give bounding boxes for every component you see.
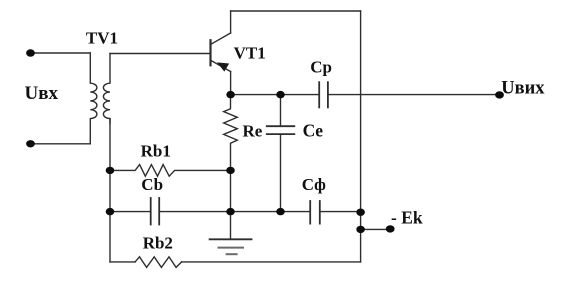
terminal: output Uvyh — [495, 91, 504, 98]
wire: right vertical rail — [360, 11, 362, 262]
wire: input top terminal to TV1 primary — [31, 52, 91, 54]
terminal: input top (Uvx +) — [26, 49, 35, 56]
resistor Rb2 — [135, 257, 182, 268]
resistor Re — [224, 95, 238, 171]
wire: mid rail left (bias node to Cb) — [110, 211, 151, 213]
resistor Rb1 — [110, 165, 231, 177]
svg-text:- Ek: - Ek — [391, 207, 423, 227]
svg-text:Uвих: Uвих — [501, 79, 545, 99]
wire: emitter node to Cp — [231, 94, 320, 96]
wire: TV1 primary bottom to input bottom terminal — [31, 143, 91, 145]
junction: emitter node — [226, 91, 235, 98]
junction: Ek node — [356, 226, 365, 233]
junction: Rb1 right node — [226, 167, 235, 174]
wire: bottom rail left segment — [110, 261, 135, 263]
svg-text:Cp: Cp — [310, 58, 332, 77]
svg-text:Сф: Сф — [302, 175, 326, 194]
wire: VT1 collector to top rail — [230, 11, 232, 33]
junction: Cf right node — [356, 209, 365, 216]
svg-text:Ce: Ce — [303, 121, 324, 141]
wire: Ek branch — [361, 228, 391, 230]
capacitor Cp — [319, 82, 328, 107]
svg-text:Rb1: Rb1 — [141, 141, 171, 160]
capacitor Ce — [267, 95, 295, 212]
junction: Ce top node — [276, 91, 285, 98]
capacitor Cb — [151, 198, 160, 225]
junction: Rb1 left node — [106, 167, 115, 174]
wire: mid rail (Cb to ground node to Ce node to Cf) — [159, 211, 310, 213]
svg-text:Re: Re — [243, 122, 263, 141]
ground — [210, 212, 252, 255]
wire: top rail — [231, 10, 361, 12]
svg-text:VT1: VT1 — [234, 44, 266, 63]
capacitor Cf — [310, 201, 320, 224]
svg-text:Cb: Cb — [141, 175, 163, 194]
terminal: Ek — [386, 225, 395, 232]
svg-text:TV1: TV1 — [86, 29, 118, 48]
wire: left bias rail (secondary bottom down to Rb2) — [109, 119, 111, 262]
junction: ground node — [226, 208, 235, 215]
svg-text:Rb2: Rb2 — [143, 233, 173, 252]
svg-text:Uвх: Uвх — [25, 83, 59, 104]
wire: TV1 secondary top to VT1 base — [110, 53, 210, 55]
transistor VT1 — [211, 33, 231, 72]
wire: bottom rail right segment — [182, 261, 361, 263]
transformer TV1 primary winding — [90, 53, 97, 144]
wire: emitter branch node to ground node — [230, 170, 232, 211]
wire: Cp to output terminal — [328, 94, 500, 96]
transformer TV1 secondary winding — [103, 54, 110, 124]
junction: Cb left node — [106, 208, 115, 215]
junction: Ce bottom node — [276, 208, 285, 215]
terminal: input bottom — [26, 140, 35, 147]
wire: VT1 emitter down to emitter node — [230, 72, 232, 95]
wire: Cf to right rail — [320, 211, 361, 213]
